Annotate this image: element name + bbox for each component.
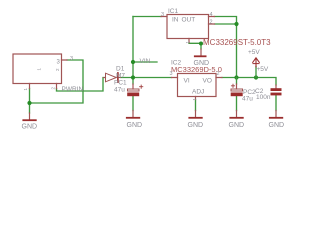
svg-text:GND: GND bbox=[229, 122, 245, 129]
svg-text:MC33269ST-5.0T3: MC33269ST-5.0T3 bbox=[203, 38, 271, 47]
svg-text:3: 3 bbox=[170, 71, 173, 77]
svg-text:1: 1 bbox=[37, 68, 42, 71]
C2 name label bbox=[255, 88, 264, 95]
IC1 pin number 1 (rotated) bbox=[185, 41, 190, 44]
junction IC1 outputs bbox=[234, 22, 238, 26]
IC2 pin number 1 (rotated) bbox=[192, 98, 197, 101]
IC2 value MC33269D-5.0 bbox=[171, 65, 222, 74]
wire VIN label stub bbox=[133, 61, 157, 63]
ground GND under PC2 bbox=[229, 111, 245, 130]
wire PC2 bottom to GND bbox=[236, 96, 238, 110]
supply +5V symbol bbox=[253, 58, 260, 67]
+5V label upper bbox=[248, 49, 260, 56]
svg-text:D1: D1 bbox=[116, 66, 125, 73]
svg-text:47u: 47u bbox=[114, 87, 125, 94]
wire PWRIN net bbox=[57, 78, 105, 92]
wire PC1 bottom to GND bbox=[132, 96, 134, 110]
node PWRIN label bbox=[62, 86, 84, 93]
svg-text:GND: GND bbox=[269, 122, 285, 129]
wire VIN vertical from top rail down to PC1 bbox=[132, 17, 134, 85]
svg-text:GND: GND bbox=[127, 122, 143, 129]
D1 name label bbox=[116, 66, 125, 73]
svg-text:ADJ: ADJ bbox=[192, 89, 204, 96]
ground GND under IC2 ADJ bbox=[188, 111, 204, 130]
svg-text:MC33269D-5.0: MC33269D-5.0 bbox=[171, 65, 222, 74]
wire X1 pin1 down to GND bbox=[29, 89, 31, 114]
capacitor PC2 bbox=[231, 84, 243, 96]
X1 pin number 3 bbox=[70, 56, 73, 62]
junction at IC1 ground bbox=[199, 42, 203, 46]
svg-text:IC1: IC1 bbox=[168, 8, 179, 15]
junction ground node bbox=[27, 101, 31, 105]
D1 value M7 bbox=[116, 73, 125, 80]
IC1 pin number 4 bbox=[210, 12, 213, 18]
svg-text:M7: M7 bbox=[116, 73, 125, 80]
wire top rail to IC1 IN bbox=[133, 16, 161, 18]
IC2 name label bbox=[171, 60, 182, 67]
IC2 pin number 3 bbox=[170, 71, 173, 77]
C2 value 100n bbox=[256, 94, 271, 101]
svg-text:VI: VI bbox=[184, 78, 190, 85]
PC1 name label bbox=[114, 80, 127, 87]
ground GND under X1 bbox=[22, 113, 38, 131]
svg-text:2: 2 bbox=[210, 20, 213, 26]
svg-text:PC1: PC1 bbox=[114, 80, 127, 87]
svg-text:3: 3 bbox=[70, 56, 73, 62]
capacitor PC1 bbox=[127, 84, 143, 96]
diode D1 bbox=[104, 73, 121, 82]
junction +5V rail at PC2 bbox=[234, 75, 238, 79]
svg-text:PWRIN: PWRIN bbox=[62, 86, 84, 93]
wire IC1 GND pin to ground symbol bbox=[189, 43, 201, 50]
wire main rail D1 cathode to IC2 VI bbox=[121, 77, 172, 79]
connector X1 bbox=[13, 54, 67, 89]
svg-text:+5V: +5V bbox=[257, 66, 269, 73]
svg-text:2: 2 bbox=[51, 87, 56, 90]
IC1 pin number 3 bbox=[161, 12, 164, 18]
wire IC1 OUT pin4 to +5V vertical bbox=[215, 17, 237, 78]
junction VIN rail bbox=[131, 75, 135, 79]
voltage regulator IC2 bbox=[172, 74, 223, 100]
wire IC2 ADJ to GND bbox=[195, 100, 197, 111]
ground GND under IC1 bbox=[194, 49, 210, 67]
X1 pin name 3 bbox=[57, 60, 61, 66]
IC1 pin number 2 bbox=[210, 20, 213, 26]
IC2 pin name ADJ bbox=[192, 89, 204, 96]
ground GND under PC1 bbox=[127, 111, 143, 130]
svg-text:2: 2 bbox=[217, 71, 220, 77]
X1 pin name 1 (rotated) bbox=[37, 68, 42, 71]
svg-text:GND: GND bbox=[188, 122, 204, 129]
svg-text:100n: 100n bbox=[256, 94, 271, 101]
svg-text:4: 4 bbox=[210, 12, 213, 18]
X1 pin number 2 (rotated) bbox=[51, 87, 56, 90]
wire +5V rail IC2 VO to C2 bbox=[222, 78, 276, 86]
svg-text:2: 2 bbox=[55, 68, 60, 71]
PC2 value 47u bbox=[242, 96, 253, 103]
junction +5V rail at supply symbol bbox=[254, 75, 258, 79]
ground GND under C2 bbox=[269, 111, 285, 130]
svg-text:IN: IN bbox=[172, 17, 179, 24]
wire +5V symbol stem bbox=[255, 67, 257, 78]
IC1 pin name OUT bbox=[182, 17, 196, 24]
IC1 pin name IN bbox=[172, 17, 179, 24]
svg-text:3: 3 bbox=[57, 60, 61, 66]
svg-text:GND: GND bbox=[22, 124, 38, 131]
svg-text:VIN: VIN bbox=[140, 58, 151, 65]
node VIN label bbox=[140, 58, 151, 65]
+5V label lower bbox=[257, 66, 269, 73]
svg-text:1: 1 bbox=[23, 88, 28, 91]
IC2 pin number 2 bbox=[217, 71, 220, 77]
wire C2 bottom to GND bbox=[275, 96, 277, 111]
PC2 name label bbox=[243, 89, 256, 96]
svg-text:1: 1 bbox=[192, 98, 197, 101]
IC2 pin name VO bbox=[203, 78, 212, 85]
wire IC1 pin2 to +5V vertical bbox=[215, 23, 237, 25]
svg-text:+5V: +5V bbox=[248, 49, 260, 56]
X1 pin name 2 (rotated) bbox=[55, 68, 60, 71]
svg-text:47u: 47u bbox=[242, 96, 253, 103]
voltage regulator IC1 bbox=[161, 15, 215, 43]
IC1 value MC33269ST-5.0T3 bbox=[203, 38, 271, 47]
wire PC2 top drop bbox=[236, 78, 238, 85]
capacitor C2 bbox=[271, 85, 282, 95]
svg-text:3: 3 bbox=[161, 12, 164, 18]
PC1 value 47u bbox=[114, 87, 125, 94]
wire X1 pin3 to ground rail bbox=[30, 60, 84, 103]
X1 pin number 1 (rotated) bbox=[23, 88, 28, 91]
IC2 pin name VI bbox=[184, 78, 190, 85]
svg-text:VO: VO bbox=[203, 78, 212, 85]
junction on VIN stub bbox=[131, 60, 135, 64]
svg-text:OUT: OUT bbox=[182, 17, 196, 24]
IC1 name label bbox=[168, 8, 179, 15]
